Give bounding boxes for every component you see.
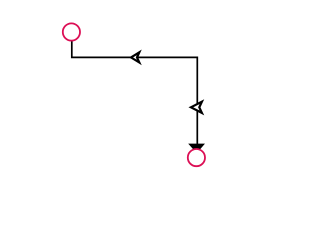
arrow mid horizontal (open, pointing left) [131,52,139,62]
arrow mid vertical (open, pointing left) [191,102,202,113]
node A (top circle) [63,23,80,40]
node B (bottom circle) [188,149,205,166]
wire [72,41,198,145]
arrowhead end (filled, pointing down) [189,144,204,152]
